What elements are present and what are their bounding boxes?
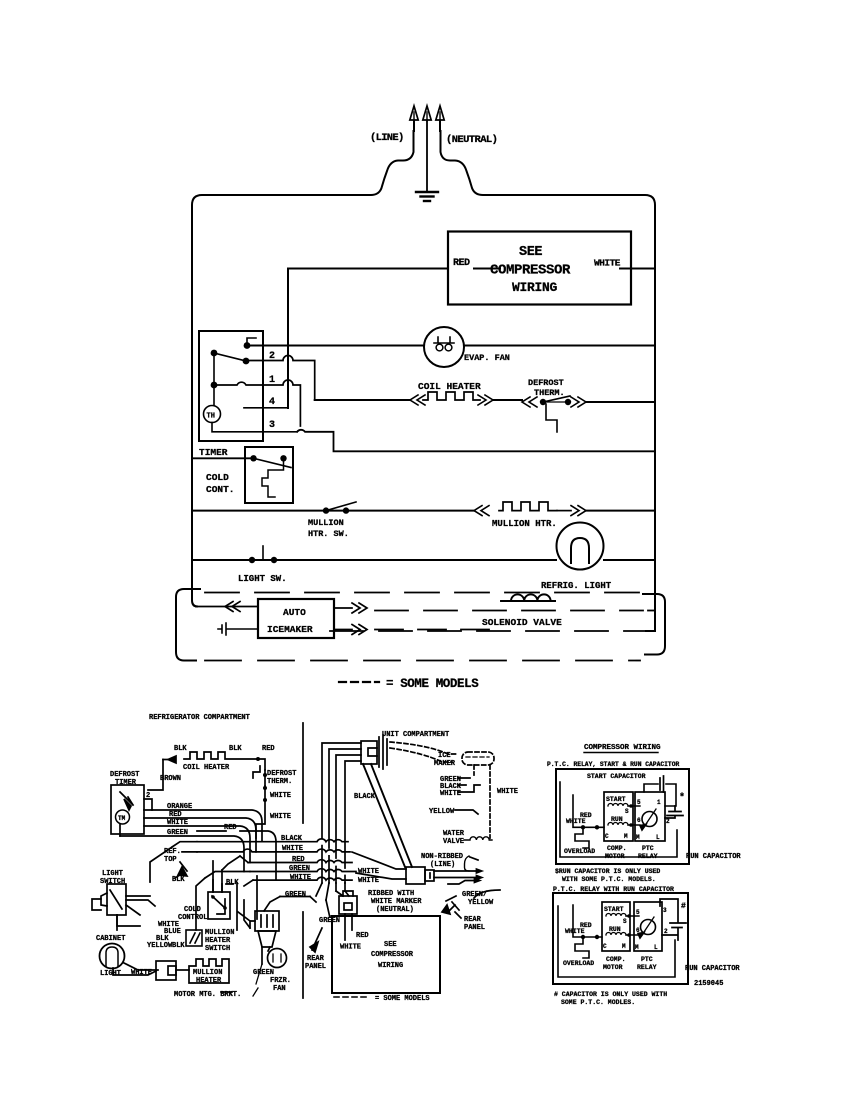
wire terminal3 row with hop	[297, 430, 655, 452]
svg-text:REAR: REAR	[464, 916, 482, 924]
wire defrost to right edge	[586, 401, 655, 403]
svg-text:WHITE: WHITE	[566, 818, 586, 825]
cold control box	[245, 447, 293, 503]
svg-text:WIRING: WIRING	[512, 280, 558, 295]
mullion heater element	[499, 502, 557, 511]
svg-text:WHITE: WHITE	[270, 813, 291, 821]
svg-text:MULLION: MULLION	[308, 518, 344, 528]
inner return wire	[560, 782, 677, 857]
svg-text:WHITE: WHITE	[340, 944, 361, 952]
some models bracket right	[643, 594, 665, 655]
comp motor box A	[604, 792, 633, 841]
svg-text:C: C	[605, 833, 609, 840]
solenoid valve coil	[501, 594, 555, 601]
svg-text:COMPRESSOR: COMPRESSOR	[371, 951, 414, 959]
svg-text:START: START	[604, 906, 624, 913]
svg-text:S: S	[625, 808, 629, 815]
timer internal contacts	[211, 342, 251, 388]
svg-text:EVAP. FAN: EVAP. FAN	[464, 353, 510, 363]
diagram A outer box	[556, 769, 689, 864]
wire light row	[192, 559, 655, 561]
svg-text:RELAY: RELAY	[637, 964, 657, 971]
mullion heater (pictorial)	[189, 959, 229, 983]
run capacitor A	[665, 806, 683, 818]
bus wire GREEN	[250, 869, 356, 872]
svg-text:= SOME MODELS: = SOME MODELS	[375, 995, 430, 1003]
wire red vertical drop	[287, 269, 289, 409]
wire terminal4 row	[244, 407, 288, 409]
svg-text:FRZR.: FRZR.	[270, 977, 291, 985]
svg-text:RED: RED	[453, 258, 470, 269]
svg-text:CABINET: CABINET	[96, 935, 125, 943]
bus wire WHITE lower	[253, 877, 352, 880]
some models bracket left	[176, 589, 200, 661]
svg-text:MULLION: MULLION	[205, 929, 234, 937]
svg-text:WATER: WATER	[443, 830, 465, 838]
svg-text:MOTOR: MOTOR	[603, 964, 623, 971]
continuation of bundle below bus	[322, 846, 345, 883]
black diagonal pair	[363, 764, 412, 867]
timer motor TH	[204, 406, 221, 423]
evap fan circle	[424, 327, 464, 367]
wire terminal2 row with hops	[247, 356, 315, 401]
svg-text:HEATER: HEATER	[205, 937, 231, 945]
dashed row top	[205, 592, 645, 594]
svg-text:5: 5	[636, 909, 640, 916]
left stub wires into bus	[172, 842, 253, 886]
svg-text:RED: RED	[169, 811, 182, 819]
inner return wire B	[558, 906, 675, 977]
svg-text:DEFROST: DEFROST	[528, 378, 564, 388]
freezer fan feeds	[238, 900, 250, 928]
svg-text:5: 5	[637, 799, 641, 806]
left supply wire	[573, 795, 604, 827]
wire green to rear panel	[264, 897, 316, 912]
timer box	[199, 331, 263, 441]
legend some models small	[334, 996, 366, 998]
svg-text:(NEUTRAL): (NEUTRAL)	[376, 906, 414, 914]
svg-text:# CAPACITOR IS ONLY USED WITH: # CAPACITOR IS ONLY USED WITH	[554, 991, 667, 998]
svg-text:UNIT COMPARTMENT: UNIT COMPARTMENT	[382, 731, 449, 739]
wire mullion row	[192, 510, 655, 512]
left supply wire B	[573, 905, 602, 937]
svg-text:DEFROST: DEFROST	[110, 771, 139, 779]
comp motor box B	[602, 902, 630, 951]
cold control bellows	[262, 460, 284, 497]
icemaker water fill capacitor symbol	[218, 623, 258, 635]
wire red mid row	[197, 831, 276, 880]
ground lead arrow	[423, 106, 431, 191]
icemaker out chevrons bottom	[334, 625, 367, 635]
svg-text:2: 2	[664, 928, 668, 935]
svg-text:RUN CAPACITOR: RUN CAPACITOR	[685, 965, 740, 973]
svg-text:GREEN: GREEN	[167, 829, 188, 837]
svg-text:M: M	[635, 944, 639, 951]
timer motor TM	[116, 810, 130, 824]
mullion heater chevrons	[474, 506, 489, 516]
defrost thermostat (pictorial)	[253, 766, 265, 786]
svg-text:$RUN CAPACITOR IS ONLY USED: $RUN CAPACITOR IS ONLY USED	[555, 868, 660, 875]
wires from light switch	[117, 896, 150, 930]
svg-text:BLK: BLK	[229, 745, 242, 753]
main cabinet outline	[192, 131, 414, 607]
svg-text:2: 2	[666, 818, 670, 825]
svg-text:START: START	[606, 796, 626, 803]
svg-text:WHITE: WHITE	[167, 819, 188, 827]
heater connector	[156, 961, 189, 980]
svg-text:WHITE MARKER: WHITE MARKER	[371, 898, 422, 906]
svg-text:REFRIG. LIGHT: REFRIG. LIGHT	[541, 581, 612, 591]
auto icemaker box	[258, 599, 334, 638]
ground symbol	[416, 192, 438, 201]
coil heater element	[423, 392, 480, 400]
coil heater left chevrons	[410, 395, 425, 405]
svg-text:REAR: REAR	[307, 955, 325, 963]
timer lever	[214, 353, 246, 361]
divider vertical	[302, 723, 304, 998]
refrig light bulb	[557, 523, 604, 570]
svg-text:M: M	[636, 834, 640, 841]
icemaker out chevrons top	[334, 603, 367, 613]
svg-text:COMP.: COMP.	[606, 956, 626, 963]
legend some models	[339, 681, 379, 683]
dashed row bottom	[205, 660, 640, 662]
wire bulb to heater connector	[113, 968, 156, 975]
coil heater element (pictorial)	[184, 752, 258, 759]
svg-text:CONT.: CONT.	[206, 484, 235, 495]
svg-text:THERM.: THERM.	[534, 388, 565, 398]
svg-text:TIMER: TIMER	[199, 447, 228, 458]
wire cold control risers	[213, 861, 233, 892]
ptc relay box B	[634, 902, 662, 951]
svg-text:4: 4	[269, 397, 275, 408]
svg-text:PANEL: PANEL	[305, 963, 326, 971]
svg-text:6: 6	[637, 817, 641, 824]
wire into icemaker with chevrons	[196, 606, 258, 608]
wire white row	[144, 826, 250, 863]
svg-text:RED: RED	[356, 932, 369, 940]
svg-text:(NEUTRAL): (NEUTRAL)	[446, 134, 497, 146]
main cabinet outline right side	[441, 131, 656, 631]
svg-text:GREEN: GREEN	[289, 865, 310, 873]
svg-text:1: 1	[657, 799, 661, 806]
svg-text:HTR. SW.: HTR. SW.	[308, 529, 349, 539]
svg-text:TM: TM	[118, 815, 126, 822]
svg-text:COIL HEATER: COIL HEATER	[418, 381, 481, 392]
svg-text:SOME P.T.C. MODLES.: SOME P.T.C. MODLES.	[561, 999, 635, 1006]
bus wire RED	[248, 860, 352, 863]
svg-text:P.T.C. RELAY WITH RUN CAPACITO: P.T.C. RELAY WITH RUN CAPACITOR	[553, 886, 674, 893]
svg-text:MULLION HTR.: MULLION HTR.	[492, 519, 557, 529]
svg-text:PTC: PTC	[641, 956, 653, 963]
diagram B outer box	[553, 893, 688, 984]
svg-text:GREEN: GREEN	[253, 969, 274, 977]
svg-text:YELLOW: YELLOW	[429, 808, 455, 816]
svg-text:L: L	[656, 834, 660, 841]
wire coil heater down to timer	[148, 760, 163, 791]
svg-text:BLK: BLK	[172, 876, 185, 884]
defrost thermostat	[522, 396, 586, 432]
svg-text:SEE: SEE	[519, 245, 542, 260]
svg-text:3: 3	[663, 907, 667, 914]
svg-text:HEATER: HEATER	[196, 977, 222, 985]
svg-text:LIGHT: LIGHT	[102, 870, 123, 878]
wire TH to terminal3 row	[212, 423, 297, 432]
svg-text:M: M	[622, 943, 626, 950]
wire stub inside box	[474, 268, 631, 270]
line terminal arrow	[410, 106, 418, 131]
wire left edge to cold control	[192, 457, 254, 459]
svg-text:GREEN: GREEN	[319, 917, 340, 925]
svg-text:RUN CAPACITOR: RUN CAPACITOR	[686, 853, 741, 861]
timer cam lever	[120, 792, 133, 805]
ptc relay box A	[635, 792, 665, 841]
svg-text:COMPRESSOR WIRING: COMPRESSOR WIRING	[584, 744, 661, 752]
svg-text:WHITE: WHITE	[594, 258, 621, 269]
svg-text:WHITE: WHITE	[290, 874, 311, 882]
svg-text:REFRIGERATOR COMPARTMENT: REFRIGERATOR COMPARTMENT	[149, 714, 250, 722]
compressor plug	[339, 891, 357, 914]
svg-text:WHITE: WHITE	[565, 928, 585, 935]
neutral terminal arrow	[436, 106, 444, 131]
wires between motor and relay A	[628, 806, 640, 825]
svg-text:START CAPACITOR: START CAPACITOR	[587, 773, 646, 780]
mullion heater switch (pictorial)	[186, 930, 202, 946]
wire white box to right edge	[631, 268, 655, 270]
wire red row	[144, 818, 256, 852]
relay motor circle B	[641, 920, 656, 935]
svg-text:BLACK: BLACK	[354, 793, 376, 801]
bus wire WHITE	[197, 849, 350, 852]
svg-text:GREEN: GREEN	[285, 891, 306, 899]
svg-text:COLD: COLD	[206, 472, 229, 483]
start capacitor loop A	[644, 784, 676, 806]
svg-text:S: S	[623, 918, 627, 925]
wire evap fan row	[247, 345, 655, 347]
svg-text:WHITE: WHITE	[282, 845, 303, 853]
coil heater right chevrons	[478, 395, 493, 405]
svg-text:(LINE): (LINE)	[370, 132, 404, 144]
svg-text:BROWN: BROWN	[160, 775, 181, 783]
svg-text:RED: RED	[292, 856, 305, 864]
wires from plug to bus verticals	[322, 743, 361, 868]
svg-text:COMP.: COMP.	[607, 845, 627, 852]
svg-text:COMPRESSOR: COMPRESSOR	[490, 263, 571, 279]
wire terminal1 row	[214, 380, 300, 426]
svg-text:RED: RED	[224, 824, 237, 832]
wire white below defrost therm	[256, 786, 265, 838]
svg-text:FAN: FAN	[273, 985, 286, 993]
svg-text:DEFROST: DEFROST	[267, 770, 296, 778]
svg-text:WHITE: WHITE	[270, 792, 291, 800]
svg-text:TOP: TOP	[164, 856, 177, 864]
svg-text:COIL HEATER: COIL HEATER	[183, 764, 230, 772]
right edge notch	[648, 610, 655, 612]
svg-text:THERM.: THERM.	[267, 778, 292, 786]
svg-text:(LINE): (LINE)	[430, 861, 455, 869]
see compressor wiring box (pictorial)	[332, 916, 440, 993]
svg-text:LIGHT: LIGHT	[100, 970, 121, 978]
svg-text:SOLENOID VALVE: SOLENOID VALVE	[482, 617, 562, 628]
light switch	[249, 557, 277, 563]
cold control contacts	[250, 455, 286, 461]
wire light switch feeds	[92, 899, 155, 926]
svg-text:ICEMAKER: ICEMAKER	[267, 624, 313, 635]
leader hook non-ribbed	[465, 856, 470, 871]
svg-text:WHITE: WHITE	[497, 788, 518, 796]
white wires to connector	[352, 852, 406, 879]
svg-text:WITH SOME P.T.C. MODELS.: WITH SOME P.T.C. MODELS.	[562, 876, 656, 883]
bus wire BLACK	[197, 839, 348, 842]
svg-text:*: *	[679, 792, 685, 804]
svg-text:LIGHT SW.: LIGHT SW.	[238, 574, 287, 584]
svg-text:COLD: COLD	[184, 906, 201, 914]
svg-text:YELLOW: YELLOW	[468, 899, 494, 907]
svg-text:CONTROL: CONTROL	[178, 914, 207, 922]
svg-text:REF.: REF.	[164, 848, 181, 856]
svg-text:WHITE: WHITE	[358, 877, 379, 885]
wires right of connector	[434, 871, 476, 884]
svg-text:TH: TH	[207, 413, 215, 421]
svg-text:ORANGE: ORANGE	[167, 803, 192, 811]
dashed main bottom	[330, 630, 646, 632]
wire red from box to left	[288, 268, 448, 270]
wire coil heater row	[315, 399, 522, 401]
svg-text:2159045: 2159045	[694, 980, 723, 988]
svg-text:L: L	[654, 944, 658, 951]
svg-text:MULLION: MULLION	[193, 969, 222, 977]
relay motor circle A	[642, 812, 657, 827]
svg-text:SWITCH: SWITCH	[205, 945, 230, 953]
wires between motor and relay B	[626, 916, 639, 935]
svg-text:RIBBED WITH: RIBBED WITH	[368, 890, 414, 898]
svg-text:PTC: PTC	[642, 845, 654, 852]
svg-text:= SOME MODELS: = SOME MODELS	[386, 677, 479, 691]
svg-text:#: #	[681, 902, 686, 911]
svg-text:WHITE: WHITE	[358, 868, 379, 876]
freezer fan plug	[250, 911, 279, 947]
svg-text:BLK: BLK	[174, 745, 187, 753]
svg-text:VALVE: VALVE	[443, 838, 464, 846]
svg-text:SEE: SEE	[384, 941, 397, 949]
svg-text:3: 3	[269, 420, 275, 431]
freezer fan motor	[268, 949, 287, 968]
svg-text:M: M	[624, 833, 628, 840]
bus wire GREEN bottom	[280, 896, 310, 898]
overload protector	[575, 829, 589, 848]
run capacitor B	[660, 899, 686, 940]
svg-text:RELAY: RELAY	[638, 853, 658, 860]
rear panel lower left	[312, 928, 322, 950]
svg-text:RED: RED	[262, 745, 275, 753]
svg-text:MOTOR: MOTOR	[605, 853, 625, 860]
coil heater left arrow	[168, 756, 176, 763]
svg-text:P.T.C. RELAY, START & RUN CAPA: P.T.C. RELAY, START & RUN CAPACITOR	[547, 761, 679, 768]
wire green row	[120, 836, 244, 872]
dashed rows right of icemaker	[375, 610, 643, 612]
svg-text:YELLOW: YELLOW	[147, 942, 173, 950]
overload protector B	[575, 939, 589, 958]
svg-text:PANEL: PANEL	[464, 924, 485, 932]
svg-text:BLACK: BLACK	[281, 835, 303, 843]
cold control lever	[254, 458, 292, 467]
wire red drop to defrost therm	[258, 759, 265, 770]
svg-text:C: C	[603, 943, 607, 950]
rear panel arrow right	[447, 902, 459, 913]
svg-text:OVERLOAD: OVERLOAD	[563, 960, 594, 967]
svg-text:BLK: BLK	[172, 942, 185, 950]
see compressor wiring box	[448, 232, 631, 305]
svg-text:WIRING: WIRING	[378, 962, 403, 970]
wire bus stubs to lower left	[150, 847, 257, 930]
svg-text:OVERLOAD: OVERLOAD	[564, 848, 595, 855]
svg-text:NON-RIBBED: NON-RIBBED	[421, 853, 463, 861]
mullion heater switch	[323, 507, 349, 513]
wire orange row	[144, 810, 262, 842]
wire bundle to compressor plug	[326, 891, 349, 918]
svg-text:AUTO: AUTO	[283, 607, 306, 618]
